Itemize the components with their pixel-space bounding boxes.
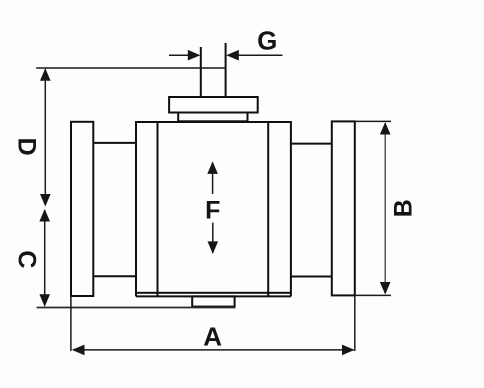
svg-text:G: G: [257, 26, 277, 56]
svg-text:C: C: [12, 250, 40, 268]
svg-text:D: D: [12, 138, 40, 156]
svg-text:F: F: [205, 197, 220, 225]
svg-text:B: B: [390, 199, 418, 217]
svg-text:A: A: [203, 321, 222, 351]
